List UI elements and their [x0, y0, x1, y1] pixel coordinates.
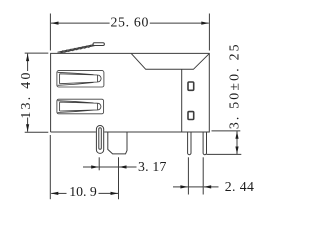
right pin 1 — [188, 132, 191, 155]
right pin 2 — [203, 132, 206, 155]
hairpin pin (inner loop) — [99, 128, 102, 150]
svg-text:3. 17: 3. 17 — [138, 159, 167, 174]
body inner wall — [181, 69, 183, 132]
dimension 13.40 — [25, 53, 49, 132]
svg-text:2. 44: 2. 44 — [225, 179, 255, 194]
standoff post (trapezoid foot) — [108, 132, 127, 154]
svg-text:25. 60: 25. 60 — [110, 15, 149, 30]
latch spring shaft (hatched) — [58, 45, 96, 54]
svg-text:3. 50±0. 25: 3. 50±0. 25 — [227, 42, 242, 129]
svg-text:10. 9: 10. 9 — [69, 184, 97, 199]
dimension 3.50±0.25 — [207, 131, 242, 155]
svg-text:13. 40: 13. 40 — [18, 70, 33, 118]
dimension 3.17 — [83, 157, 137, 199]
contact slot 2 outline — [57, 99, 104, 114]
dimension 25.60 — [50, 14, 209, 51]
contact slot 1 inner channel — [58, 72, 102, 85]
body top recess profile — [131, 54, 209, 70]
latch spring tip pill — [93, 43, 104, 46]
contact slot 2 inner channel — [58, 101, 101, 113]
square hole 2 — [188, 112, 194, 120]
square hole 1 — [188, 82, 194, 90]
contact slot 1 outline — [57, 71, 104, 87]
dimension 2.44 — [173, 157, 219, 194]
connector body outline — [51, 53, 210, 132]
hairpin pin (outer loop) — [96, 126, 103, 154]
dimension 10.9 — [50, 135, 118, 199]
